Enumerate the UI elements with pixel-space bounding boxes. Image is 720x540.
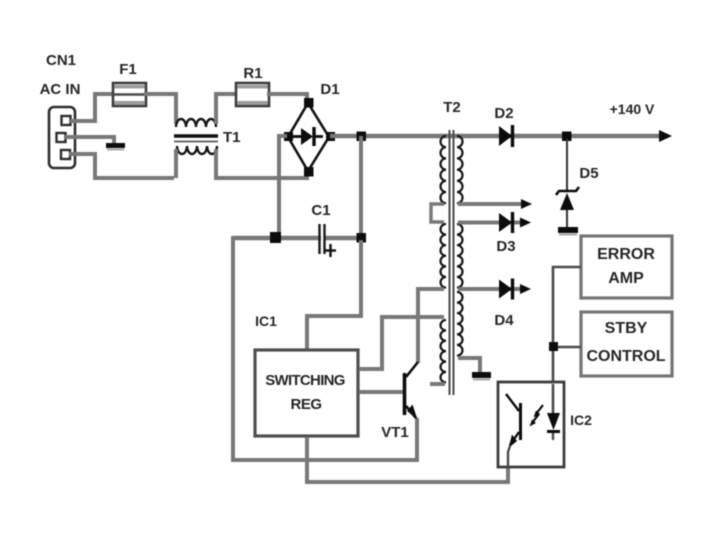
label C1: [311, 202, 330, 219]
label VT1: [381, 424, 409, 441]
node bridge top: [304, 98, 314, 108]
pin 3 of CN1: [61, 150, 70, 159]
svg-text:+140 V: +140 V: [610, 101, 655, 117]
svg-text:C1: C1: [311, 202, 330, 219]
node rail above C1: [357, 132, 367, 142]
main DC rail +140V: [330, 134, 668, 139]
svg-text:VT1: VT1: [381, 424, 409, 441]
wire pin3 to bottom rail: [69, 154, 174, 178]
wire T1 bottom left leg: [174, 149, 178, 178]
bridge inner diode: [293, 127, 323, 146]
wire IC1 bottom pin to IC2: [307, 437, 508, 482]
fuse F1: [113, 83, 146, 106]
T2 primary winding section 1: [441, 136, 447, 203]
T2 primary tap jog: [431, 204, 444, 222]
node STBY junction: [549, 342, 558, 351]
wire rail to C1: [359, 136, 363, 238]
wire R1 to bridge top: [267, 94, 307, 102]
arrowhead D3 output: [520, 218, 531, 228]
svg-text:ERROR: ERROR: [597, 246, 655, 263]
diode D2: [499, 125, 513, 147]
wire STBY to feedback line: [553, 346, 581, 349]
label IC1: [255, 313, 277, 329]
T2 aux winding bottom stub: [430, 382, 445, 386]
C1 rail: [233, 236, 361, 240]
node rail at D5: [562, 132, 572, 142]
ground bar (D5): [558, 227, 578, 236]
node bridge right: [326, 132, 335, 141]
diode D4: [499, 279, 513, 300]
svg-text:R1: R1: [243, 65, 262, 82]
svg-text:REG: REG: [290, 396, 321, 413]
zener diode D5: [556, 139, 579, 228]
ground bar (T2 secondary): [472, 372, 491, 381]
wire secondary tap 3 (D4 line): [458, 287, 523, 291]
label T2: [443, 99, 461, 116]
node C1 left: [270, 232, 281, 243]
wire IC1 right pin to aux winding: [359, 317, 444, 369]
capacitor C1: [320, 224, 337, 257]
node bridge bottom: [304, 167, 314, 177]
connector CN1: [49, 107, 75, 168]
pin 1 of CN1: [62, 116, 71, 125]
diode D3: [499, 212, 513, 233]
svg-text:D3: D3: [496, 238, 515, 255]
IC1 switching regulator box: [255, 350, 358, 436]
wire ERROR AMP to feedback line: [553, 267, 581, 382]
wire F1 to T1: [144, 94, 176, 124]
wire T1 top right to R1: [216, 94, 238, 124]
svg-text:CN1: CN1: [46, 52, 76, 69]
optocoupler IC2 box: [498, 382, 564, 467]
svg-text:D4: D4: [494, 312, 514, 329]
T2 primary winding section 2: [441, 224, 447, 288]
wire IC1 base drive to VT1: [359, 390, 403, 394]
rail arrowhead: [659, 130, 672, 142]
label T1: [223, 129, 241, 146]
T2 secondary winding section 2: [457, 224, 463, 288]
left loop wire down to emitter rail: [233, 236, 417, 460]
label D2: [494, 105, 513, 122]
wire pin2 to AC ground: [65, 137, 114, 144]
STBY CONTROL box: [581, 312, 672, 376]
wire secondary bottom to ground: [458, 358, 480, 373]
svg-text:T2: T2: [443, 99, 461, 116]
T2 aux winding: [441, 320, 447, 382]
ERROR AMP box: [581, 236, 672, 298]
wire T1 bottom right leg to bridge: [216, 149, 307, 178]
svg-text:F1: F1: [119, 61, 137, 78]
arrowhead D4 output: [520, 284, 531, 294]
wire C1 node down to IC1 supply: [307, 240, 361, 350]
svg-text:SWITCHING: SWITCHING: [265, 372, 345, 389]
IC2 light arrows: [530, 405, 544, 427]
transformer T1 core: [174, 136, 218, 142]
label R1: [243, 65, 262, 82]
wire bridge left to C1 rail: [279, 136, 287, 238]
T2 secondary winding section 3: [457, 292, 463, 356]
node bridge left: [284, 132, 293, 141]
svg-text:IC2: IC2: [570, 412, 592, 428]
svg-text:AC IN: AC IN: [40, 81, 81, 98]
transformer T1 bottom winding: [177, 146, 217, 154]
svg-text:D2: D2: [494, 105, 513, 122]
svg-text:STBY: STBY: [605, 320, 648, 337]
label D1: [320, 81, 339, 98]
label F1: [119, 61, 137, 78]
label +140 V: [610, 101, 655, 117]
label CN1: [46, 52, 76, 69]
label D3: [496, 238, 515, 255]
IC2 led: [547, 384, 560, 440]
transformer T1 top winding: [176, 119, 216, 127]
bridge rectifier D1 diamond: [288, 103, 329, 171]
resistor R1: [236, 83, 269, 106]
wire pin1 to fuse riser: [70, 94, 95, 121]
pin 2 of CN1: [57, 133, 66, 142]
svg-text:AMP: AMP: [608, 270, 644, 287]
wire T2 primary bottom to VT1 collector: [418, 289, 444, 363]
svg-text:IC1: IC1: [255, 313, 277, 329]
svg-text:CONTROL: CONTROL: [586, 348, 665, 365]
wire secondary tap 2 (D3 line): [458, 221, 523, 225]
node C1 right: [357, 233, 367, 243]
svg-text:T1: T1: [223, 129, 241, 146]
ground bar (AC neutral): [106, 143, 125, 151]
svg-text:D5: D5: [579, 165, 598, 182]
wire secondary tap 1 with arrow: [458, 199, 532, 209]
svg-text:D1: D1: [320, 81, 339, 98]
label AC IN: [40, 81, 81, 98]
transformer T2 core: [450, 130, 454, 395]
T2 secondary winding section 1: [457, 136, 463, 203]
label IC2: [570, 412, 592, 428]
label D4: [494, 312, 514, 329]
transistor VT1: [405, 362, 419, 420]
label D5: [579, 165, 598, 182]
IC2 phototransistor: [506, 394, 521, 467]
wire F1 row left: [93, 92, 115, 96]
